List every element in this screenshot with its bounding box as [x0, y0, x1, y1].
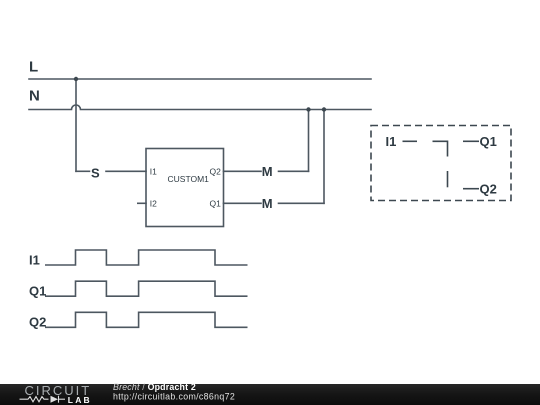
svg-text:Q2: Q2	[29, 315, 46, 330]
svg-text:L: L	[29, 59, 38, 76]
svg-text:M: M	[262, 164, 273, 179]
svg-text:Q2: Q2	[210, 166, 222, 176]
svg-text:I1: I1	[29, 253, 40, 268]
svg-text:S: S	[91, 166, 100, 181]
svg-text:I2: I2	[150, 198, 157, 208]
svg-text:Q1: Q1	[210, 198, 222, 208]
svg-text:Q2: Q2	[480, 182, 497, 197]
svg-text:Brecht / Opdracht 2: Brecht / Opdracht 2	[113, 382, 196, 392]
svg-text:Q1: Q1	[480, 134, 497, 149]
svg-text:I1: I1	[150, 166, 157, 176]
svg-text:Q1: Q1	[29, 284, 46, 299]
svg-text:I1: I1	[386, 134, 397, 149]
svg-text:http://circuitlab.com/c86nq72: http://circuitlab.com/c86nq72	[113, 392, 235, 402]
svg-text:N: N	[29, 87, 40, 104]
svg-text:LAB: LAB	[68, 395, 92, 405]
svg-text:CUSTOM1: CUSTOM1	[168, 174, 210, 184]
svg-text:M: M	[262, 196, 273, 211]
